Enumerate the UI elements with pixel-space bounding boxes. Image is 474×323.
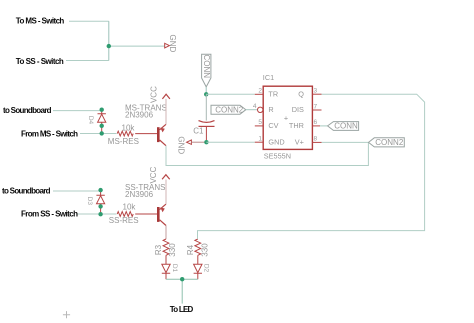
svg-text:10k: 10k — [122, 124, 136, 133]
svg-text:CONN2: CONN2 — [375, 138, 404, 147]
text to Soundboard (MS) — [3, 106, 52, 115]
text From SS-Switch — [21, 210, 78, 219]
flag CONN vertical — [202, 54, 211, 87]
svg-text:To SS - Switch: To SS - Switch — [16, 57, 64, 66]
op-amp IC1 SE555N box — [263, 73, 313, 160]
svg-text:IC1: IC1 — [263, 73, 274, 82]
svg-text:330: 330 — [168, 243, 177, 257]
ground GND2 at C1 — [177, 136, 207, 154]
wire LED net — [166, 279, 198, 303]
pin 8 V+ stub — [312, 136, 321, 143]
resistor R3 330 — [154, 239, 177, 257]
svg-text:CV: CV — [268, 121, 278, 130]
text To LED — [170, 305, 194, 314]
node D3 top — [98, 188, 102, 192]
svg-text:+: + — [284, 113, 288, 122]
svg-text:DIS: DIS — [292, 105, 304, 114]
svg-text:To MS - Switch: To MS - Switch — [16, 16, 65, 25]
svg-text:5: 5 — [258, 119, 262, 126]
wire THR to CONN flag — [320, 125, 328, 127]
pin 3 Q stub — [312, 88, 321, 95]
wire to Soundboard (SS row) — [53, 190, 101, 192]
svg-text:8: 8 — [314, 136, 318, 143]
resistor R4 330 — [186, 239, 210, 257]
text To MS-Switch — [16, 16, 65, 25]
wire TR junction down to C1 — [205, 94, 207, 120]
svg-text:4: 4 — [253, 103, 257, 110]
transistor Q MS-TRANS 2N3906 — [125, 103, 167, 145]
node D3 bottom junction — [98, 212, 102, 216]
wire To MS-Switch — [69, 20, 109, 22]
wire SS collector to R3 — [165, 226, 167, 240]
wire resistor to SS transistor base — [135, 213, 157, 215]
svg-text:SE555N: SE555N — [264, 152, 291, 161]
resistor MS-RES 10k — [108, 124, 139, 146]
wire vertical joining switch nets — [108, 21, 110, 60]
wire From MS-Switch to resistor — [80, 133, 117, 135]
svg-text:From MS - Switch: From MS - Switch — [21, 130, 78, 139]
svg-text:to Soundboard: to Soundboard — [3, 106, 52, 115]
pin 6 THR stub — [312, 119, 320, 126]
svg-text:GND: GND — [177, 136, 186, 154]
flag CONN at THR — [328, 122, 359, 131]
svg-text:TR: TR — [268, 89, 278, 98]
pin 5 CV stub — [255, 119, 263, 126]
svg-text:D4: D4 — [87, 116, 94, 125]
pin 2 TR stub — [255, 88, 263, 95]
diode D3 — [86, 190, 105, 214]
svg-text:GND: GND — [168, 35, 177, 53]
power VCC1 — [150, 86, 170, 103]
wire CONN2 flag to R pin circle — [246, 109, 258, 111]
diode D1 — [162, 264, 178, 279]
power VCC2 — [149, 166, 170, 183]
transistor Q SS-TRANS 2N3906 — [125, 183, 166, 225]
svg-text:D2: D2 — [203, 264, 210, 273]
svg-text:THR: THR — [289, 121, 304, 130]
svg-text:2N3906: 2N3906 — [125, 110, 154, 119]
svg-text:2N3906: 2N3906 — [125, 190, 154, 199]
wire R3 to D1 — [165, 255, 167, 264]
svg-text:D1: D1 — [171, 264, 178, 273]
pin 7 DIS stub — [312, 103, 321, 110]
node switch junction — [107, 44, 111, 48]
wire junction to GND — [109, 45, 165, 47]
node D4 bottom junction — [100, 131, 104, 135]
svg-text:2: 2 — [258, 88, 262, 95]
text to Soundboard (SS) — [2, 187, 51, 196]
wire GND net to pin 1 — [206, 141, 254, 143]
svg-text:R4: R4 — [186, 244, 195, 255]
svg-text:to Soundboard: to Soundboard — [2, 187, 51, 196]
resistor SS-RES 10k — [109, 202, 139, 225]
pin 1 GND stub — [255, 136, 263, 143]
node D4 pin end — [100, 124, 104, 128]
wire CONN flag to TR net — [205, 87, 207, 94]
svg-text:To LED: To LED — [170, 305, 194, 314]
diode D4 — [87, 110, 106, 134]
svg-text:CONN2: CONN2 — [215, 105, 244, 114]
svg-text:V+: V+ — [295, 137, 304, 146]
svg-text:MS-RES: MS-RES — [108, 137, 139, 146]
node LED junction — [180, 277, 184, 281]
text To SS-Switch — [16, 57, 64, 66]
capacitor C1 — [193, 121, 214, 143]
wire To SS-Switch — [66, 60, 109, 62]
wire R4 to D2 — [197, 255, 199, 264]
wire SS emitter to VCC — [165, 180, 167, 205]
svg-text:7: 7 — [314, 103, 318, 110]
svg-text:R3: R3 — [154, 244, 163, 255]
wire TR net to pin 2 — [206, 93, 255, 95]
svg-text:From SS - Switch: From SS - Switch — [21, 210, 78, 219]
ground GND1 top — [165, 35, 177, 53]
svg-text:GND: GND — [268, 137, 284, 146]
svg-text:SS-RES: SS-RES — [109, 216, 139, 225]
wire MS emitter to VCC — [165, 99, 167, 124]
text From MS-Switch — [21, 130, 78, 139]
wire From SS-Switch to resistor — [78, 213, 117, 215]
svg-text:C1: C1 — [193, 127, 204, 136]
wire MS collector down and right to V+ net — [166, 142, 368, 165]
svg-text:1: 1 — [258, 136, 262, 143]
wire to Soundboard (MS row) — [53, 110, 102, 112]
svg-text:VCC: VCC — [149, 166, 158, 183]
flag CONN2 at V+ — [369, 138, 405, 147]
wire V+ to CONN2 flag — [322, 141, 369, 143]
svg-text:VCC: VCC — [150, 86, 159, 103]
node D4 top — [100, 108, 104, 112]
wire Q output net — [198, 94, 425, 239]
svg-text:Q: Q — [298, 89, 304, 98]
node TR junction — [204, 92, 208, 96]
svg-text:CONN: CONN — [202, 55, 211, 79]
flag CONN2 at reset pin — [211, 105, 246, 114]
pin 4 R inversion circle — [253, 103, 263, 112]
origin cross mark — [63, 311, 70, 318]
svg-text:330: 330 — [200, 243, 209, 257]
diode D2 — [194, 264, 210, 279]
node D3 pin end — [98, 204, 102, 208]
svg-text:6: 6 — [314, 119, 318, 126]
wire resistor to transistor base — [135, 133, 157, 135]
svg-text:R: R — [268, 105, 273, 114]
node GND/C1 junction — [204, 140, 208, 144]
svg-text:10k: 10k — [123, 202, 137, 211]
svg-text:3: 3 — [314, 88, 318, 95]
svg-text:D3: D3 — [86, 197, 93, 206]
svg-text:CONN: CONN — [334, 122, 358, 131]
